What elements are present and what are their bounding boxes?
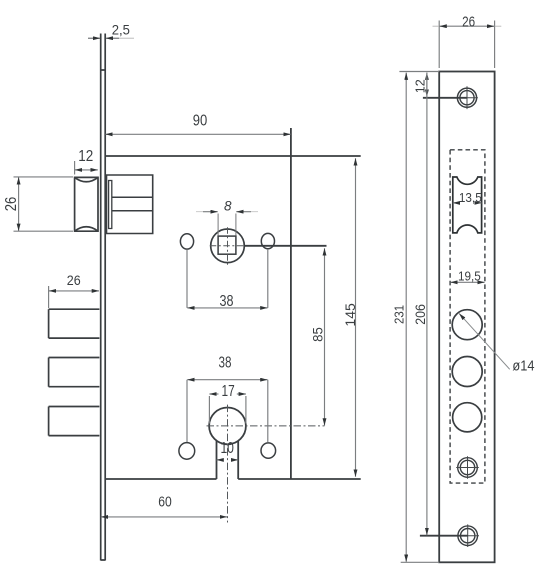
- reference line to dim 85: [244, 245, 326, 247]
- dim 12 latch: [75, 148, 98, 175]
- deadbolt hole 2: [452, 357, 482, 387]
- spindle hub circle: [211, 229, 245, 263]
- dim 60: [101, 495, 227, 517]
- guide circle lower left: [179, 443, 195, 460]
- latch cutout: [453, 177, 482, 233]
- body outline: [105, 128, 361, 479]
- screw hole in cutout region: [456, 456, 479, 479]
- svg-text:145: 145: [343, 303, 358, 327]
- deadbolt 1: [49, 309, 100, 338]
- cylinder slot: [217, 441, 239, 480]
- dim 8: [196, 198, 258, 235]
- svg-text:26: 26: [3, 197, 20, 212]
- dim 206 reference line: [420, 535, 468, 537]
- svg-text:26: 26: [462, 13, 475, 30]
- dim 12 right view: [412, 73, 467, 98]
- deadbolt 3: [49, 407, 100, 436]
- svg-text:38: 38: [220, 293, 234, 310]
- svg-text:ø14: ø14: [512, 359, 534, 375]
- deadbolt hole 1: [452, 310, 482, 340]
- follower circle left: [180, 234, 193, 249]
- svg-text:60: 60: [158, 495, 172, 511]
- latch housing: [107, 175, 153, 234]
- dim 85: [311, 248, 326, 425]
- dim 38 upper: [187, 249, 268, 310]
- dim 26 deadbolts: [49, 272, 99, 308]
- svg-text:12: 12: [78, 148, 93, 165]
- spindle centerlines: [227, 227, 229, 264]
- latch tail: [112, 197, 153, 211]
- dim 17: [209, 383, 246, 424]
- svg-text:38: 38: [219, 354, 232, 371]
- svg-text:206: 206: [413, 304, 428, 325]
- svg-text:12: 12: [412, 79, 427, 93]
- spindle square hole 8mm: [218, 236, 236, 254]
- svg-text:85: 85: [311, 327, 326, 342]
- top edge extension: [399, 71, 439, 73]
- deadbolt hole 3: [453, 403, 482, 432]
- dim 13,5: [453, 190, 482, 205]
- svg-text:231: 231: [391, 305, 406, 324]
- dim 2,5: [88, 23, 134, 39]
- svg-text:17: 17: [222, 383, 235, 400]
- svg-text:2,5: 2,5: [112, 23, 130, 38]
- svg-text:10: 10: [220, 440, 234, 457]
- dim 19,5: [450, 269, 484, 284]
- top screw hole: [457, 86, 478, 109]
- dim 38 lower: [187, 354, 268, 442]
- svg-text:13,5: 13,5: [459, 190, 482, 205]
- dim 206: [413, 73, 428, 536]
- bottom edge extension: [401, 561, 440, 563]
- latch bolt: [75, 177, 98, 231]
- dim 10: [217, 440, 239, 460]
- cylinder centerlines: [227, 405, 229, 523]
- guide circle lower right: [261, 443, 276, 458]
- dashed cutout region: [450, 150, 485, 483]
- faceplate front outline: [439, 72, 494, 563]
- svg-text:19,5: 19,5: [458, 269, 481, 284]
- svg-text:8: 8: [224, 198, 232, 213]
- svg-text:26: 26: [67, 272, 81, 288]
- deadbolt 2: [49, 358, 100, 387]
- svg-text:90: 90: [193, 113, 208, 130]
- leader dia 14: [459, 313, 534, 374]
- dim 26 latch: [3, 177, 73, 231]
- dim 145: [343, 158, 358, 477]
- follower circle right: [261, 233, 274, 248]
- dim 26 right view: [433, 13, 502, 68]
- bottom screw hole: [456, 524, 479, 547]
- dim 90: [105, 113, 290, 135]
- cylinder circle: [209, 408, 246, 445]
- dim 231: [391, 73, 406, 562]
- faceplate side view: [101, 34, 106, 561]
